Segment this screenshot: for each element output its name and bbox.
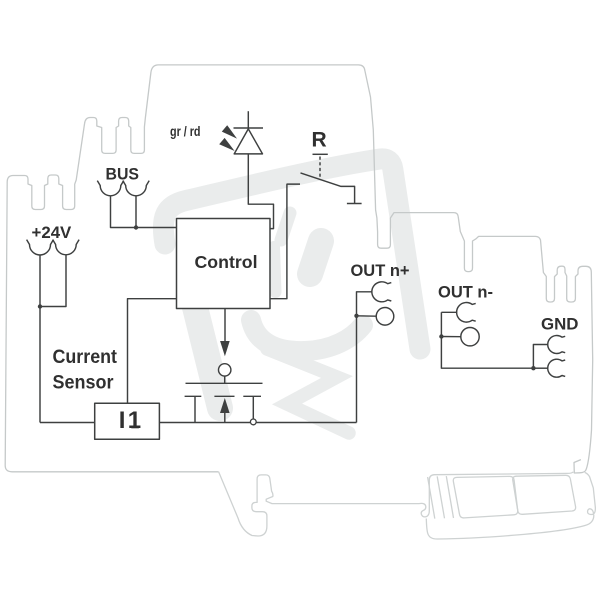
wire I1 to OUT n+ (bottom) <box>159 422 356 424</box>
housing DIN-rail foot <box>219 472 419 536</box>
schematic (black) <box>27 111 566 439</box>
MOSFET Q1 <box>185 364 263 423</box>
wire BUS to control <box>111 196 177 228</box>
arrow control to MOSFET gate <box>220 309 230 357</box>
terminal OUT n+ <box>354 282 394 423</box>
current sensor block I1 <box>95 403 160 439</box>
svg-text:OUT n-: OUT n- <box>438 283 493 302</box>
wire +24V left down <box>40 255 66 423</box>
control block U1 <box>177 219 271 309</box>
terminal +24V arcs <box>27 240 80 255</box>
svg-text:Current: Current <box>53 347 118 368</box>
svg-text:gr / rd: gr / rd <box>170 123 201 139</box>
junction +24V <box>38 304 42 308</box>
svg-text:Control: Control <box>195 252 258 272</box>
watermark logo <box>163 159 420 433</box>
svg-text:GND: GND <box>541 314 579 333</box>
svg-text:Sensor: Sensor <box>53 372 115 393</box>
test point circle on source wire <box>250 419 256 425</box>
LED D1 <box>219 111 273 228</box>
terminal OUT n- <box>439 303 548 369</box>
svg-text:R: R <box>312 129 327 152</box>
housing outline: left side with +24V and BUS clamp forks, top cap <box>5 65 593 473</box>
terminal GND <box>531 336 565 378</box>
DIN rail <box>419 472 595 539</box>
svg-text:OUT n+: OUT n+ <box>351 261 410 280</box>
terminal BUS arcs <box>97 181 149 196</box>
svg-text:+24V: +24V <box>32 223 72 242</box>
svg-text:I: I <box>119 407 126 434</box>
svg-text:1: 1 <box>128 407 141 434</box>
wire bottom bus to I1 <box>40 422 95 424</box>
svg-text:BUS: BUS <box>106 165 140 184</box>
switch R <box>270 154 362 298</box>
junction BUS <box>134 225 138 229</box>
wire control to I1 <box>128 299 177 404</box>
